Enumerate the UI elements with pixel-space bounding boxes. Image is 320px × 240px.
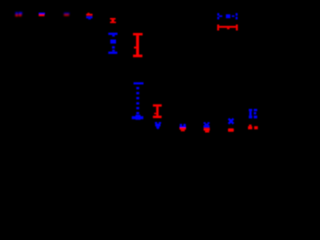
data point 6 red errorbar [153,104,162,118]
data point 8 blue marker [204,122,210,127]
data point 5 red errorbar [133,33,143,57]
data point 3 red marker [86,13,92,16]
data point 10 blue errorbar (dashed, clipped) [249,109,257,119]
data point 0 blue marker [15,12,22,15]
data point 4 red errorbar [110,18,116,23]
data point 9 red marker [228,128,234,131]
legend blue series sample [217,13,237,19]
data point 2 blue marker [64,13,70,15]
data point 1 red marker [39,14,45,16]
data point 7 red marker [180,128,187,132]
data point 10 red marker (clipped) [248,125,258,130]
data point 7 blue marker [180,124,187,128]
data point 5 blue dashed errorbar with square marker [132,82,144,120]
data point 4 blue errorbar with square marker [108,33,117,54]
data point 6 blue errorbar with square marker [155,122,161,129]
data point 3 blue marker [86,16,92,19]
data point 2 red marker [64,14,69,16]
data point 0 red marker [15,14,21,16]
data point 9 blue X marker [229,119,232,123]
legend red series sample [217,25,238,31]
data point 1 blue marker [39,13,45,15]
data point 8 red marker [204,128,210,133]
